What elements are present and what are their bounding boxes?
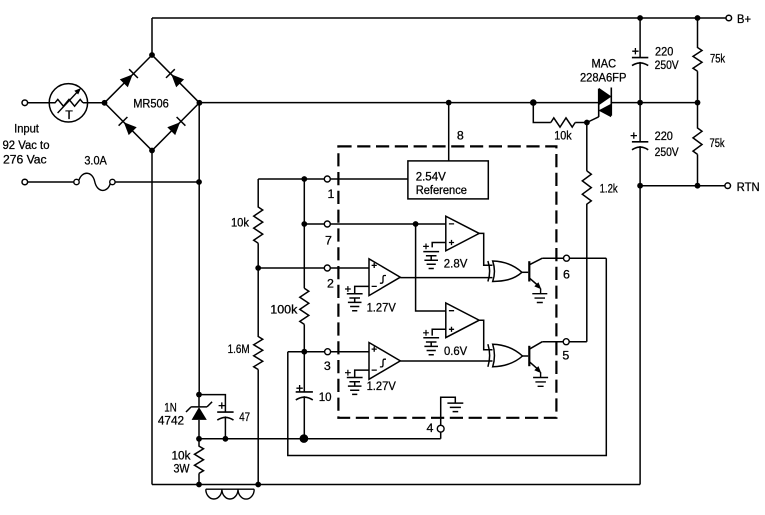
svg-text:8: 8 <box>457 129 464 143</box>
op-amp comparator 0.6V <box>446 303 479 338</box>
pin 5 <box>563 339 569 345</box>
transistor Q lower <box>523 342 543 378</box>
label 92 Vac to <box>3 138 50 152</box>
wire cap column upper lead <box>639 18 641 58</box>
node bottom rail 1.6M column <box>255 482 261 488</box>
label 100k <box>270 303 298 317</box>
inductor choke coil <box>206 489 254 499</box>
label T <box>65 108 73 122</box>
label 1.27V lower <box>367 379 397 393</box>
op-amp comparator 1.27V upper <box>369 259 400 296</box>
node main rail 75k column <box>695 100 701 106</box>
node zener top junction <box>196 392 202 398</box>
node pin3 branch <box>301 349 307 355</box>
node bottom rail zener column <box>196 482 202 488</box>
label 2.8V <box>444 256 468 270</box>
ground Q upper emitter <box>532 294 547 303</box>
node pin1 branch <box>301 176 307 182</box>
battery reference 2.8V <box>423 244 439 269</box>
label 276 Vac <box>3 153 47 167</box>
svg-text:MAC: MAC <box>592 57 617 71</box>
wire input to thermistor <box>28 102 50 104</box>
terminal AC input line 2 <box>22 179 28 185</box>
wire bridge bottom to bottom rail <box>151 151 153 485</box>
battery reference 1.27V lower <box>345 370 363 395</box>
node comparator branch pin7 <box>413 221 419 227</box>
wire AC2 vertical <box>198 103 200 395</box>
node RTN rail cap column <box>637 183 643 189</box>
terminal B+ <box>726 15 732 21</box>
transistor Q upper <box>522 258 542 294</box>
svg-text:4: 4 <box>427 421 434 435</box>
wire main AC rail left of triac <box>199 102 598 104</box>
wire pin2 row <box>258 267 369 269</box>
svg-text:10k: 10k <box>172 449 192 463</box>
wire top B+ rail <box>152 17 726 19</box>
svg-text:7: 7 <box>325 233 332 247</box>
svg-text:250V: 250V <box>655 58 680 72</box>
svg-text:B+: B+ <box>737 12 751 26</box>
zener diode 1N4742 <box>186 395 212 439</box>
XOR gate lower <box>488 344 523 367</box>
wire bridge top lead <box>151 18 153 55</box>
svg-text:2: 2 <box>327 277 334 291</box>
svg-text:228A6FP: 228A6FP <box>580 71 627 85</box>
svg-text:1.6M: 1.6M <box>228 342 250 356</box>
svg-text:RTN: RTN <box>737 180 760 194</box>
label 4742 <box>158 413 184 427</box>
svg-text:276 Vac: 276 Vac <box>3 153 47 167</box>
wire pin7 branch down to 0.6V comp <box>416 224 446 311</box>
label 1N <box>164 400 176 414</box>
wire zener to cap47 <box>199 395 225 413</box>
wire collector to pin5 <box>542 341 587 343</box>
wire collector to pin6 <box>542 257 606 259</box>
node RTN rail 75k column <box>695 183 701 189</box>
label 250V upper <box>655 58 680 72</box>
node top rail 75k column <box>695 15 701 21</box>
svg-text:MR506: MR506 <box>133 96 169 110</box>
label pin 6 <box>563 268 570 282</box>
resistor 10k gate <box>551 118 587 127</box>
ground Q lower emitter <box>533 378 548 387</box>
thermistor arrow <box>58 88 82 113</box>
wire 1.27V lower output <box>400 360 492 362</box>
wire 2.8V comp output <box>479 233 492 265</box>
node cap47 bottom <box>223 436 229 442</box>
wire pin8 vertical <box>448 103 450 161</box>
node top rail cap column <box>637 15 643 21</box>
label 10k upper-left <box>231 216 250 230</box>
fuse 3.0A <box>74 173 115 190</box>
pin 1 <box>324 176 330 182</box>
pin 4 <box>437 425 444 432</box>
resistor 75k lower <box>693 103 702 186</box>
svg-text:T: T <box>65 108 73 122</box>
label 0.6V <box>444 344 468 358</box>
svg-text:250V: 250V <box>655 145 680 159</box>
voltage reference box <box>408 161 488 199</box>
resistor 10k 3W <box>195 439 204 485</box>
node bridge right vertex <box>197 100 203 106</box>
svg-text:1N: 1N <box>164 400 176 414</box>
label pin 1 <box>328 187 335 201</box>
wire ground return row <box>199 432 441 439</box>
label 47 <box>239 410 250 424</box>
label 220 lower <box>655 129 673 143</box>
node triac gate <box>584 120 590 126</box>
pin 7 <box>324 221 330 227</box>
resistor 1.6M <box>254 268 263 485</box>
label pin 5 <box>562 349 569 363</box>
wire pin1-pin7 vertical <box>303 179 305 288</box>
label 10k 3W <box>172 449 192 476</box>
capacitor 220 250V upper <box>632 48 648 103</box>
node fuse junction <box>196 179 202 185</box>
svg-text:220: 220 <box>655 129 673 143</box>
label pin 7 <box>325 233 332 247</box>
node bridge bottom vertex <box>149 148 155 154</box>
node bridge left vertex <box>102 100 108 106</box>
wire feedback pin6 to pin3 <box>288 258 607 455</box>
pin 3 <box>325 349 331 355</box>
svg-text:92 Vac to: 92 Vac to <box>3 138 50 152</box>
label 1.27V upper <box>367 301 397 315</box>
wire pin4 to ground <box>441 397 456 425</box>
label pin 2 <box>327 277 334 291</box>
wire input2 to fuse <box>28 181 74 183</box>
svg-text:2.8V: 2.8V <box>444 256 468 270</box>
label 1.2k <box>600 182 619 196</box>
diode bridge bottom-left <box>119 117 137 135</box>
label 2.54V Reference <box>416 170 467 198</box>
pin 6 <box>564 255 570 261</box>
label 250V lower <box>655 145 680 159</box>
label Input <box>14 122 39 136</box>
svg-text:2.54V: 2.54V <box>416 170 447 184</box>
label MAC 228A6FP <box>580 57 627 85</box>
svg-text:4742: 4742 <box>158 413 184 427</box>
svg-text:1.27V: 1.27V <box>367 301 397 315</box>
wire main AC rail right of triac <box>611 102 697 104</box>
label 3.0A <box>84 153 107 167</box>
resistor 1.2k <box>582 123 591 342</box>
node main rail cap column <box>637 100 643 106</box>
diode bridge bottom-right <box>167 117 185 135</box>
node bridge DC+ vertex <box>149 52 155 58</box>
label 75k upper <box>710 52 726 66</box>
label 75k lower <box>710 136 726 150</box>
wire gate branch <box>533 103 551 123</box>
op-amp comparator 2.8V <box>446 216 479 251</box>
node pin8 branch <box>446 100 452 106</box>
svg-text:220: 220 <box>655 45 673 59</box>
wire pin7 row <box>304 223 446 225</box>
node pin7 branch <box>301 221 307 227</box>
svg-text:75k: 75k <box>710 136 726 150</box>
label 220 upper <box>655 45 673 59</box>
IC dashed outline <box>338 146 556 417</box>
battery reference 0.6V <box>423 330 439 355</box>
wire 1.27V upper ref input <box>355 286 369 293</box>
capacitor 220 250V lower <box>631 103 649 186</box>
svg-text:100k: 100k <box>270 303 298 317</box>
wire pin3 row <box>288 351 369 353</box>
pin 2 <box>324 265 330 271</box>
capacitor 47 <box>217 402 233 438</box>
svg-text:5: 5 <box>562 349 569 363</box>
label pin 10 <box>319 390 332 404</box>
ground IC pin4 <box>447 403 463 412</box>
label pin 3 <box>324 359 331 373</box>
wire 0.6V comp output <box>479 320 492 350</box>
svg-text:47: 47 <box>239 410 250 424</box>
label pin 4 <box>427 421 434 435</box>
svg-text:10: 10 <box>319 390 332 404</box>
svg-text:1.27V: 1.27V <box>367 379 397 393</box>
diode bridge top-left <box>120 69 138 87</box>
wire pin1 row <box>258 178 408 180</box>
terminal RTN <box>725 183 731 189</box>
svg-text:75k: 75k <box>710 52 726 66</box>
wire pin3 to cap10 <box>303 352 305 392</box>
wire 1.27V lower ref input <box>355 370 369 377</box>
node big junction <box>300 434 309 443</box>
resistor 10k upper-left <box>254 179 263 268</box>
node zener bottom junction <box>196 436 202 442</box>
terminal AC input line 1 <box>22 100 28 106</box>
thermistor RT element <box>49 99 87 106</box>
wire bottom rail <box>152 484 640 486</box>
svg-text:1: 1 <box>328 187 335 201</box>
wire 1.27V upper output <box>400 277 492 279</box>
svg-text:6: 6 <box>563 268 570 282</box>
wire 0.6V ref input <box>432 329 446 335</box>
resistor 100k <box>300 288 309 351</box>
node triac gate network branch <box>530 99 537 106</box>
resistor 75k upper <box>693 18 702 103</box>
svg-text:3W: 3W <box>173 462 189 476</box>
svg-text:10k: 10k <box>554 129 572 143</box>
diode bridge top-right <box>166 69 184 87</box>
wire RTN rail <box>640 185 725 187</box>
wire 2.8V ref input <box>432 243 446 248</box>
op-amp comparator 1.27V lower <box>369 343 400 380</box>
svg-text:Reference: Reference <box>416 183 467 197</box>
svg-text:3: 3 <box>324 359 331 373</box>
label RTN <box>737 180 760 194</box>
svg-text:0.6V: 0.6V <box>444 344 468 358</box>
wire thermistor to bridge <box>88 102 105 104</box>
thermistor RT circle <box>49 84 87 122</box>
triac MAC 228A6FP <box>587 88 611 123</box>
label MR506 <box>133 96 169 110</box>
XOR gate upper <box>488 261 522 282</box>
capacitor 10 <box>296 385 313 439</box>
svg-text:Input: Input <box>14 122 39 136</box>
label 1.6M <box>228 342 250 356</box>
label 10k gate <box>554 129 572 143</box>
svg-text:10k: 10k <box>231 216 250 230</box>
battery reference 1.27V upper <box>345 286 363 311</box>
rectifier bridge MR506 outline <box>105 55 200 151</box>
svg-text:1.2k: 1.2k <box>600 182 619 196</box>
wire fuse to AC2 node <box>115 181 199 183</box>
label B+ <box>737 12 751 26</box>
svg-text:3.0A: 3.0A <box>84 153 107 167</box>
wire cap column to bottom rail <box>639 186 641 485</box>
label pin 8 <box>457 129 464 143</box>
node pin2 branch <box>255 265 261 271</box>
